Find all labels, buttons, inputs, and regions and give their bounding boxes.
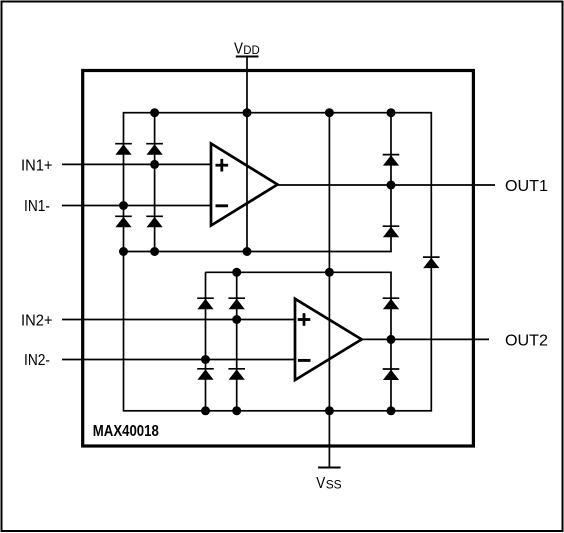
svg-text:IN2-: IN2-: [24, 352, 50, 369]
svg-text:OUT2: OUT2: [505, 332, 548, 349]
svg-text:OUT1: OUT1: [505, 178, 548, 195]
svg-text:V: V: [234, 40, 243, 57]
svg-text:V: V: [316, 475, 325, 492]
svg-text:SS: SS: [326, 478, 342, 492]
svg-text:DD: DD: [243, 43, 260, 57]
svg-text:IN1+: IN1+: [21, 157, 53, 174]
svg-text:IN2+: IN2+: [21, 313, 53, 330]
svg-text:IN1-: IN1-: [24, 198, 50, 215]
svg-text:MAX40018: MAX40018: [93, 423, 159, 440]
